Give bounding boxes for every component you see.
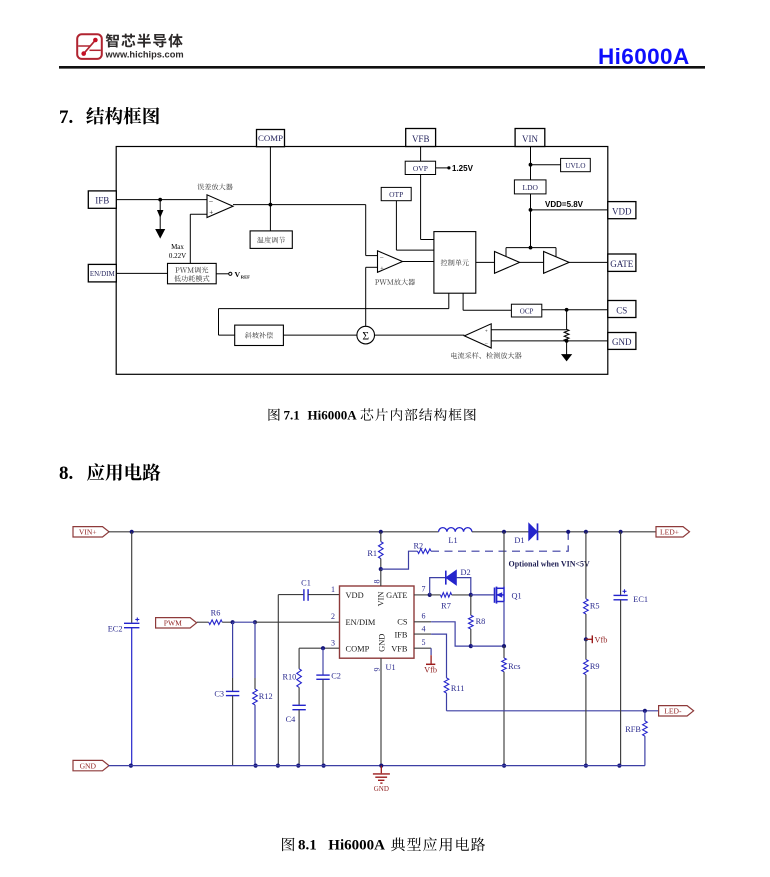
svg-text:0.22V: 0.22V [169, 252, 186, 260]
block OTP [381, 187, 411, 200]
label EC2 [108, 624, 123, 633]
node pin9 ground [379, 764, 383, 768]
svg-text:–: – [379, 254, 384, 261]
svg-text:EN/DIM: EN/DIM [346, 618, 376, 627]
svg-text:7.1: 7.1 [284, 408, 300, 423]
svg-text:8.1: 8.1 [298, 838, 317, 854]
label 1.25V [436, 164, 474, 173]
svg-text:Hi6000A: Hi6000A [308, 408, 358, 423]
wire GATE pin7 [414, 594, 430, 596]
capacitor C2 [316, 648, 329, 765]
node EC1 top [619, 530, 623, 534]
pin VIN top [515, 129, 545, 147]
node VDD junction [529, 208, 533, 212]
buffer supply bracket [506, 248, 556, 257]
svg-text:IFB: IFB [95, 196, 109, 206]
label Rcs [508, 662, 520, 671]
svg-text:–: – [484, 340, 488, 346]
node RFB top [643, 709, 647, 713]
label D2 [461, 568, 471, 577]
wire optional dashed [431, 532, 568, 551]
caption 图7.1 [269, 408, 476, 423]
block OCP [511, 304, 541, 317]
svg-text:Σ: Σ [362, 330, 369, 342]
svg-text:VDD=5.8V: VDD=5.8V [545, 200, 584, 209]
svg-text:OCP: OCP [520, 308, 534, 316]
svg-text:Optional when VIN<5V: Optional when VIN<5V [509, 560, 591, 569]
svg-text:1: 1 [331, 585, 335, 594]
block OVP [405, 161, 435, 174]
svg-text:COMP: COMP [346, 644, 370, 653]
wire buffer2 to GATE pin [569, 261, 608, 263]
block 控制单元 [434, 232, 476, 294]
svg-text:8.: 8. [59, 463, 73, 484]
wire LED- line [447, 710, 659, 712]
svg-text:V: V [235, 270, 241, 279]
svg-text:R9: R9 [590, 662, 600, 671]
ground arrow [562, 341, 571, 361]
svg-text:5: 5 [422, 638, 426, 647]
wire control bottom left [219, 293, 449, 335]
op-amp error amplifier [207, 195, 233, 218]
svg-text:Max: Max [171, 243, 184, 251]
svg-text:GND: GND [378, 634, 387, 652]
node R12 bottom [254, 764, 258, 768]
buffer 2 [544, 252, 570, 274]
ground symbol GND [373, 766, 390, 793]
label C3 [214, 689, 224, 698]
node C2 bottom [322, 764, 326, 768]
label C2 [331, 672, 341, 681]
svg-text:EC1: EC1 [633, 595, 648, 604]
wire GND pin line [491, 340, 608, 342]
net Vfb stub [424, 655, 437, 674]
capacitor EC1 [614, 532, 628, 766]
wire to Q1 source node [471, 645, 504, 647]
svg-text:4: 4 [422, 625, 426, 634]
wire OTP to control [396, 201, 434, 250]
svg-text:7: 7 [422, 584, 426, 593]
svg-text:C4: C4 [286, 715, 297, 724]
svg-text:Q1: Q1 [512, 591, 522, 600]
wire PWM amp plus input [366, 267, 378, 326]
node optional join [566, 530, 570, 534]
node COMP-EA junction [269, 203, 273, 207]
transistor Q1 MOSFET [495, 587, 505, 604]
svg-text:EC2: EC2 [108, 624, 123, 633]
wire VFB to OVP [420, 147, 422, 162]
svg-text:COMP: COMP [258, 133, 283, 143]
wire sense amp plus input [491, 329, 566, 331]
node R5 top [584, 530, 588, 534]
node Rcs bottom [502, 764, 506, 768]
node Vfb junction [584, 637, 588, 641]
capacitor C4 [292, 687, 305, 765]
wire PWM to EN/DIM pin2 [233, 621, 340, 623]
capacitor C1 [304, 589, 340, 601]
svg-text:VIN+: VIN+ [79, 528, 97, 537]
label PWM放大器 [375, 279, 415, 286]
wire D1 to LED+ [538, 531, 657, 533]
net tag GND [73, 760, 109, 770]
pin CS [608, 301, 636, 318]
svg-text:LED-: LED- [664, 707, 682, 716]
net Vfb tick [586, 635, 608, 644]
resistor R8 [469, 595, 474, 646]
node buffer supply junction [529, 246, 533, 250]
current source symbol [156, 200, 164, 238]
wire summer to sense amp [375, 334, 465, 336]
svg-text:IFB: IFB [394, 630, 407, 639]
op-amp current sense amplifier [464, 324, 491, 348]
svg-text:GATE: GATE [386, 591, 407, 600]
svg-text:L1: L1 [448, 536, 457, 545]
svg-text:www.hichips.com: www.hichips.com [105, 50, 184, 60]
svg-text:3: 3 [331, 639, 335, 648]
svg-text:GND: GND [80, 761, 97, 770]
node pin3 junction [321, 646, 325, 650]
svg-text:C2: C2 [331, 672, 341, 681]
svg-text:R10: R10 [282, 672, 296, 681]
logo url www.hichips.com [105, 50, 184, 60]
svg-text:8: 8 [373, 580, 382, 584]
label R12 [259, 692, 273, 701]
label C4 [286, 715, 297, 724]
block 斜坡补偿 [235, 325, 284, 345]
label 电流采样检测放大器 [451, 352, 521, 359]
svg-text:VIN: VIN [376, 592, 385, 607]
svg-text:R1: R1 [367, 549, 377, 558]
label R2 [414, 541, 424, 550]
svg-text:Hi6000A: Hi6000A [598, 44, 690, 69]
svg-text:R5: R5 [590, 601, 600, 610]
op-amp PWM amplifier [378, 251, 403, 273]
svg-text:PWM: PWM [164, 619, 182, 628]
wire OCP to CS pin [542, 309, 608, 311]
label VDD=5.8V [545, 200, 584, 209]
heading 7. 结构框图 [59, 107, 159, 128]
label R8 [476, 617, 486, 626]
wire Q1 source [503, 602, 505, 647]
svg-text:REF: REF [241, 274, 250, 279]
svg-text:Vfb: Vfb [595, 635, 608, 644]
wire gate to Q1 [471, 594, 495, 596]
label EC1 [633, 595, 648, 604]
pin COMP [257, 130, 285, 147]
node R9 bottom [584, 764, 588, 768]
svg-text:VIN: VIN [522, 134, 538, 144]
wire Q1 drain [503, 532, 505, 587]
svg-text:R11: R11 [451, 684, 465, 693]
svg-text:OTP: OTP [389, 190, 403, 199]
resistor RFB [643, 711, 648, 766]
wire COMP down [269, 147, 271, 231]
label Optional when VIN<5V [509, 560, 591, 569]
wire PWM amp minus input [366, 255, 378, 257]
node VIN-UVLO junction [529, 163, 533, 167]
diode D2 [430, 570, 471, 595]
header rule [59, 66, 705, 69]
resistor R2 optional [381, 549, 431, 569]
node IFB junction [158, 198, 162, 202]
capacitor EC2 [124, 532, 139, 766]
svg-text:D1: D1 [514, 536, 524, 545]
resistor Rcs [502, 646, 507, 766]
wire LDO down [530, 194, 532, 248]
block 温度调节 [250, 231, 292, 249]
svg-text:EN/DIM: EN/DIM [90, 270, 116, 278]
pin VFB [406, 129, 436, 147]
svg-text:+: + [209, 208, 213, 216]
summer sigma [357, 326, 375, 344]
pin EN/DIM [88, 264, 116, 282]
pin GND right [608, 333, 636, 350]
svg-text:CS: CS [397, 618, 408, 627]
resistor R12 [253, 622, 258, 765]
wire IFB to error amp [116, 199, 207, 201]
wire to VDD pin [531, 209, 608, 211]
svg-text:R8: R8 [476, 617, 486, 626]
heading 8. 应用电路 [59, 463, 161, 484]
svg-text:Rcs: Rcs [508, 662, 520, 671]
wire buffer1 to buffer2 [520, 261, 544, 263]
logo text 智芯半导体 [106, 34, 183, 48]
node C4 bottom [296, 764, 300, 768]
net tag LED+ [656, 527, 690, 537]
wire CS pin6 [414, 622, 471, 646]
node R1 top [379, 530, 383, 534]
label R1 [367, 549, 377, 558]
svg-text:GATE: GATE [610, 259, 633, 269]
svg-text:+: + [380, 266, 384, 273]
svg-text:LDO: LDO [522, 183, 538, 192]
resistor R5 [584, 532, 589, 640]
svg-text:OVP: OVP [413, 164, 428, 173]
svg-text:GND: GND [374, 785, 389, 793]
pin VDD [608, 202, 636, 219]
svg-text:–: – [208, 197, 213, 205]
pin GATE [608, 254, 636, 271]
wire EN/DIM to PWM block [116, 272, 167, 274]
svg-text:UVLO: UVLO [565, 161, 585, 170]
sense resistor [564, 310, 569, 341]
label RFB [625, 725, 641, 734]
resistor R1 [379, 532, 384, 569]
label 误差放大器 [197, 184, 232, 191]
svg-text:+: + [485, 328, 488, 334]
resistor R10 [297, 648, 302, 687]
svg-text:CS: CS [616, 305, 627, 315]
svg-text:9: 9 [373, 668, 382, 672]
node C3 top [231, 620, 235, 624]
wire error amp plus input [190, 214, 207, 263]
node Rcs top [502, 644, 506, 648]
node Q1 drain top [502, 530, 506, 534]
svg-text:Hi6000A: Hi6000A [328, 838, 385, 854]
wire VIN down [530, 147, 532, 180]
Vref output [216, 270, 250, 280]
block LDO [514, 180, 546, 194]
wire OVP to control [421, 175, 434, 240]
buffer 1 [495, 252, 520, 274]
label R5 [590, 601, 600, 610]
pin IFB [88, 191, 116, 208]
svg-text:C3: C3 [214, 689, 224, 698]
block PWM调光低功耗模式 [168, 263, 217, 283]
part number Hi6000A [598, 44, 690, 69]
diode D1 [529, 523, 538, 540]
svg-text:2: 2 [331, 612, 335, 621]
label Max 0.22V [169, 243, 186, 260]
svg-text:6: 6 [422, 612, 426, 621]
svg-text:R12: R12 [259, 692, 273, 701]
IC U1 Hi6000A [340, 586, 415, 658]
resistor R6 [197, 620, 233, 625]
svg-text:D2: D2 [461, 568, 471, 577]
svg-text:R2: R2 [414, 541, 424, 550]
svg-text:VFB: VFB [412, 134, 430, 144]
svg-text:C1: C1 [301, 579, 311, 588]
svg-text:Vfb: Vfb [424, 665, 437, 674]
label R11 [451, 684, 465, 693]
wire control to buffer1 [476, 261, 495, 263]
node EC2 bottom [129, 764, 133, 768]
block UVLO [561, 158, 591, 171]
wire VFB pin5 [414, 648, 431, 655]
label R9 [590, 662, 600, 671]
svg-text:LED+: LED+ [660, 528, 679, 537]
block diagram outer box [116, 147, 608, 375]
capacitor C3 [226, 622, 239, 765]
resistor R9 [584, 639, 589, 765]
label R6 [211, 609, 221, 618]
node gate junction [428, 593, 432, 597]
label pin8 rotated [373, 580, 382, 584]
wire PWM amp to control [403, 261, 434, 263]
label GND rotated in IC [378, 634, 387, 652]
svg-text:RFB: RFB [625, 725, 641, 734]
node R8 bottom [469, 644, 473, 648]
svg-text:GND: GND [612, 337, 632, 347]
node EC2 top [130, 530, 134, 534]
svg-text:R6: R6 [211, 609, 221, 618]
svg-text:1.25V: 1.25V [452, 164, 474, 173]
label C1 [301, 579, 311, 588]
label L1 [448, 536, 457, 545]
svg-text:7.: 7. [59, 107, 73, 128]
wire COMP pin3 [299, 647, 339, 649]
logo icon [77, 34, 102, 59]
net tag VIN+ [73, 527, 109, 537]
wire VIN+ rail [109, 531, 439, 533]
caption 图8.1 [282, 837, 485, 853]
wire L1 to D1 [472, 531, 529, 533]
node R7-R8 junction [469, 593, 473, 597]
node GND junction [565, 339, 569, 343]
resistor R11 [444, 678, 449, 711]
net tag LED- [659, 706, 694, 716]
node C1-branch bottom [276, 764, 280, 768]
wire IFB pin4 [414, 634, 447, 678]
svg-text:R7: R7 [441, 601, 451, 610]
wire pin8 to IC [380, 569, 382, 586]
svg-text:VFB: VFB [391, 644, 408, 653]
svg-text:VDD: VDD [612, 207, 632, 217]
node R12 top [253, 620, 257, 624]
label Q1 [512, 591, 522, 600]
inductor L1 [439, 528, 472, 532]
node pin8 junction [379, 567, 383, 571]
wire C1 ground branch [278, 595, 303, 766]
label pin9 rotated [373, 668, 382, 672]
wire to UVLO [531, 164, 561, 166]
label R7 [441, 601, 451, 610]
node CS junction [565, 308, 569, 312]
wire slope comp to summer [283, 334, 357, 336]
node EC1 bottom [617, 764, 621, 768]
svg-text:VDD: VDD [346, 591, 364, 600]
wire error amp output [233, 205, 366, 256]
net tag PWM [156, 618, 197, 628]
wire control bottom right to OCP [463, 293, 511, 310]
label R10 [282, 672, 296, 681]
resistor R7 [430, 593, 471, 598]
label U1 [386, 663, 396, 672]
svg-text:U1: U1 [386, 663, 396, 672]
label VIN rotated in IC [376, 592, 385, 607]
wire pin9 to ground [380, 658, 382, 765]
wire ground rail [109, 765, 645, 767]
label D1 [514, 536, 524, 545]
